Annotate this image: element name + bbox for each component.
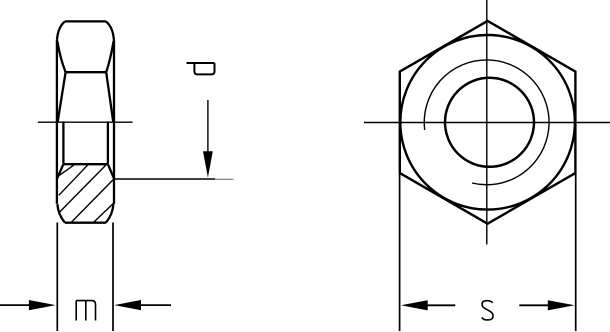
chamfer face curve upper-right <box>106 41 113 72</box>
chamfer arc bottom-right corner <box>106 204 114 223</box>
s dimension arrowhead right <box>548 300 575 310</box>
countersink slant right <box>108 164 114 178</box>
m dimension arrowhead left <box>29 300 56 310</box>
m dimension line right segment <box>141 304 172 306</box>
chamfer face curve upper-left <box>57 41 65 72</box>
m dimension arrowhead right <box>114 300 141 310</box>
m extension line left <box>56 223 58 332</box>
nut bottom edge <box>65 222 106 224</box>
thread hole circle <box>445 78 534 167</box>
axis centerline left view <box>38 121 133 123</box>
label m <box>76 301 95 321</box>
thread leader line <box>114 178 215 180</box>
hatch line 2 <box>59 165 88 196</box>
s extension line right <box>575 174 577 332</box>
hatch line 5 <box>93 203 114 223</box>
label s <box>482 301 493 320</box>
p arrowhead <box>203 151 213 177</box>
p arrow line <box>207 100 209 152</box>
thread leader line faint tail <box>215 178 234 180</box>
hexagon outline <box>400 21 576 224</box>
nut top edge <box>65 20 106 22</box>
chamfer arc top-left corner <box>57 21 65 40</box>
thread major diameter arc <box>424 60 549 185</box>
front face chamfer line left <box>58 72 66 122</box>
s dimension line right segment <box>519 304 548 306</box>
bore bottom (minor diameter) line <box>63 163 108 165</box>
countersink slant left <box>57 164 63 178</box>
chamfer circle <box>400 35 575 210</box>
upper hex face edge <box>66 71 107 73</box>
horizontal centerline right view <box>364 122 610 124</box>
hatch line 4 <box>71 179 113 222</box>
chamfer arc top-right corner <box>106 21 114 40</box>
hatch line 1 <box>59 165 74 176</box>
thread bore left wall <box>62 121 64 163</box>
m extension line right <box>112 223 114 332</box>
nut outer left face line <box>56 40 58 204</box>
s extension line left <box>399 174 401 332</box>
label p (rotated) <box>187 63 215 74</box>
s dimension line left segment <box>427 304 455 306</box>
nut outer right face line <box>113 40 115 204</box>
front face chamfer line right <box>106 72 113 122</box>
chamfer arc bottom-left corner <box>57 204 65 223</box>
vertical centerline right view <box>486 0 488 245</box>
thread bore right wall <box>107 121 109 163</box>
m dimension line left segment <box>0 304 30 306</box>
s dimension arrowhead left <box>401 300 428 310</box>
hatch line 3 <box>58 165 105 213</box>
